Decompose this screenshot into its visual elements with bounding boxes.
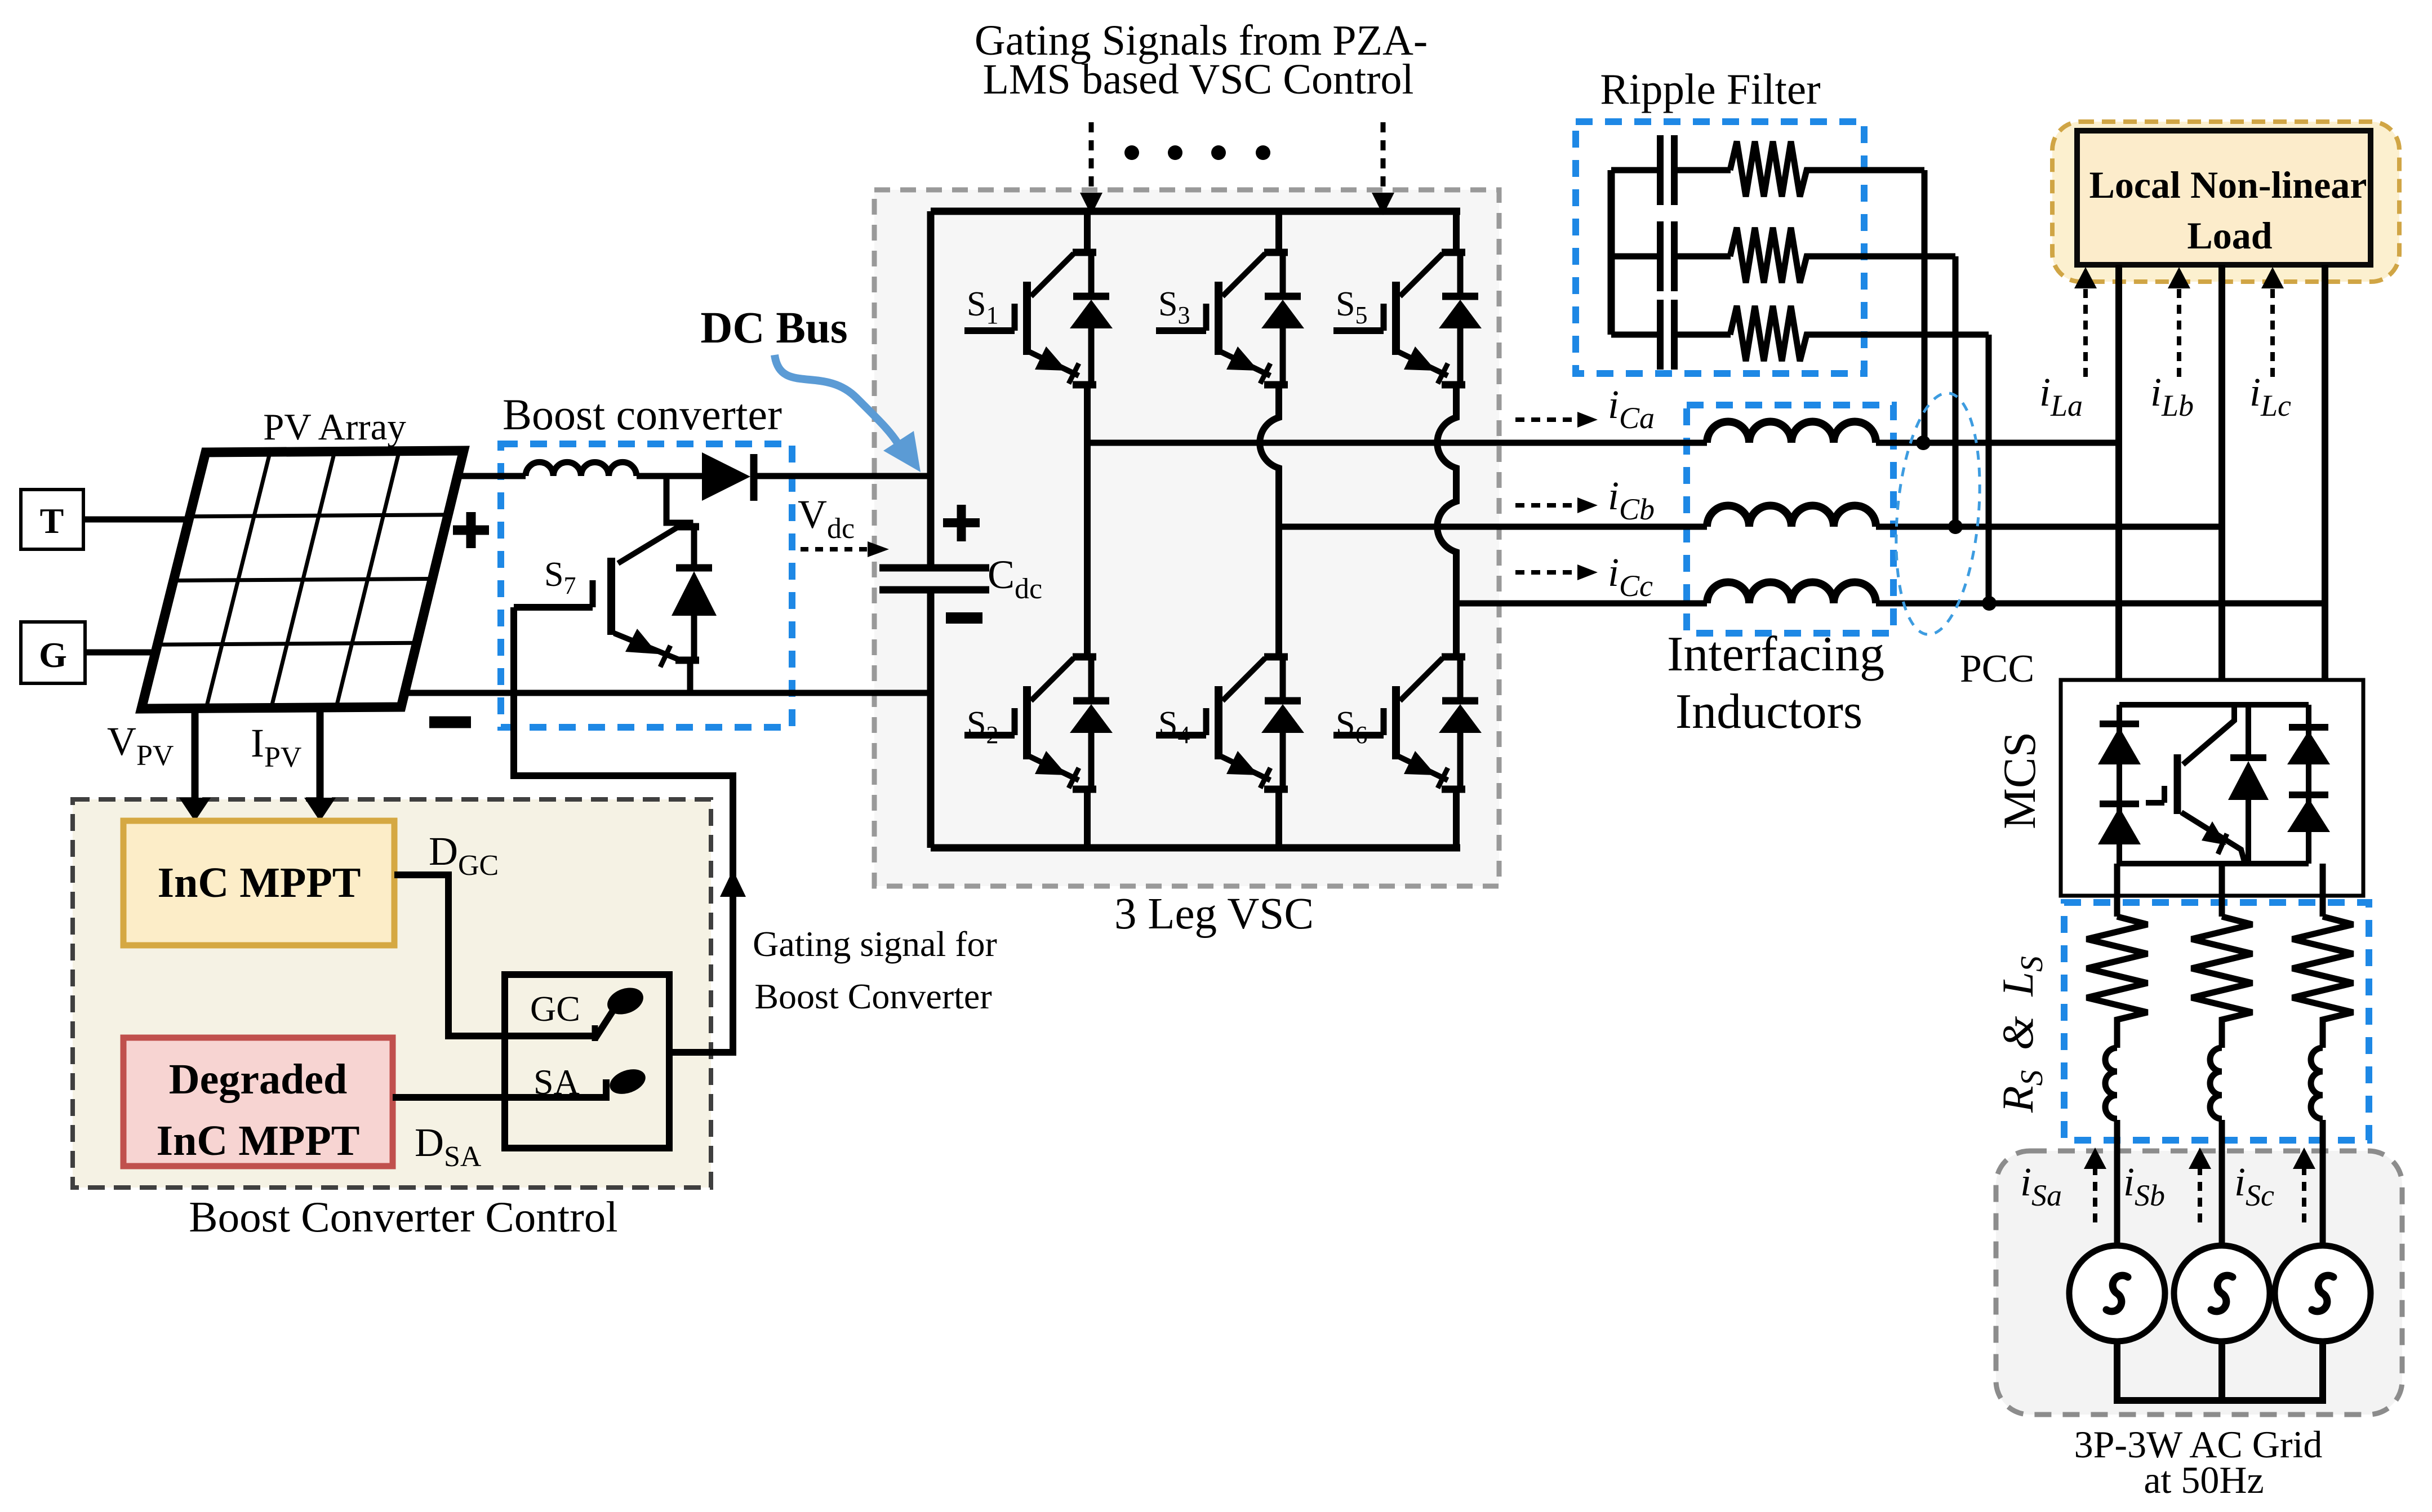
svg-text:RS & LS: RS & LS — [1993, 956, 2049, 1113]
svg-text:T: T — [40, 501, 64, 541]
svg-text:Boost Converter Control: Boost Converter Control — [189, 1193, 617, 1241]
svg-text:iLb: iLb — [2150, 370, 2194, 423]
svg-text:iLc: iLc — [2249, 370, 2291, 423]
svg-text:PCC: PCC — [1960, 647, 2034, 691]
svg-text:Load: Load — [2187, 214, 2272, 257]
svg-text:VPV: VPV — [107, 719, 174, 772]
svg-text:PV Array: PV Array — [263, 406, 406, 448]
svg-text:GC: GC — [530, 989, 580, 1029]
svg-text:iCb: iCb — [1608, 473, 1655, 526]
svg-text:LMS based VSC Control: LMS based VSC Control — [982, 56, 1413, 103]
svg-text:3 Leg VSC: 3 Leg VSC — [1114, 890, 1314, 939]
svg-text:MCS: MCS — [1994, 732, 2045, 829]
svg-text:Boost converter: Boost converter — [503, 390, 782, 439]
svg-text:at 50Hz: at 50Hz — [2144, 1458, 2264, 1501]
svg-text:Degraded: Degraded — [169, 1056, 348, 1103]
svg-text:S7: S7 — [544, 555, 576, 599]
svg-text:Vdc: Vdc — [798, 492, 855, 545]
svg-text:Inductors: Inductors — [1675, 684, 1862, 739]
svg-text:G: G — [39, 635, 67, 675]
svg-text:iCc: iCc — [1608, 550, 1653, 603]
svg-text:InC MPPT: InC MPPT — [157, 1117, 360, 1164]
svg-text:iCa: iCa — [1608, 382, 1655, 435]
svg-text:InC MPPT: InC MPPT — [158, 859, 361, 906]
svg-text:DC Bus: DC Bus — [700, 304, 847, 353]
svg-text:iLa: iLa — [2039, 370, 2083, 423]
svg-text:Local Non-linear: Local Non-linear — [2089, 163, 2367, 206]
svg-text:Interfacing: Interfacing — [1667, 627, 1884, 682]
svg-text:Boost Converter: Boost Converter — [754, 976, 992, 1016]
svg-text:IPV: IPV — [251, 721, 301, 773]
svg-text:Gating signal for: Gating signal for — [753, 924, 997, 964]
svg-text:Ripple Filter: Ripple Filter — [1600, 65, 1820, 113]
svg-text:SA: SA — [533, 1062, 580, 1102]
